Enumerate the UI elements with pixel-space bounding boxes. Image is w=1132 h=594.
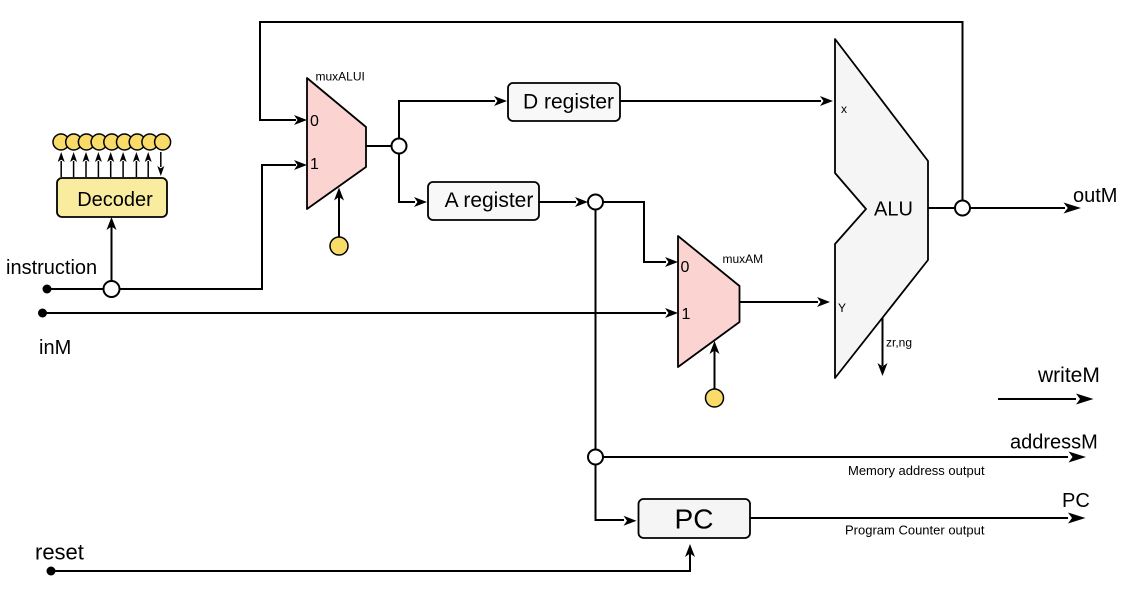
node ALU output junction — [955, 201, 970, 216]
wire instruction line to muxALUI input 1 — [47, 160, 307, 289]
register PC — [639, 499, 751, 538]
wire junction down to addressM junction — [595, 210, 597, 450]
svg-text:instruction: instruction — [6, 257, 97, 279]
svg-text:1: 1 — [682, 306, 691, 323]
svg-text:Y: Y — [838, 301, 846, 315]
svg-text:1: 1 — [310, 156, 319, 173]
mux muxAM — [678, 236, 763, 367]
wire D register to ALU X input — [620, 96, 833, 106]
register D — [508, 83, 620, 121]
svg-text:D register: D register — [523, 91, 614, 114]
svg-text:outM: outM — [1073, 185, 1117, 207]
control dot for muxALUI — [330, 188, 348, 256]
wire muxAM output to ALU Y input — [740, 297, 831, 307]
control dot for muxAM — [706, 341, 724, 407]
node addressM junction — [588, 450, 603, 465]
register A — [428, 182, 539, 220]
svg-text:writeM: writeM — [1037, 364, 1100, 387]
svg-text:muxALUI: muxALUI — [316, 70, 365, 84]
svg-text:inM: inM — [39, 337, 71, 359]
svg-text:Decoder: Decoder — [77, 189, 153, 211]
svg-text:muxAM: muxAM — [723, 252, 764, 266]
svg-text:reset: reset — [35, 540, 84, 565]
wire ALU output stub — [928, 207, 955, 209]
svg-text:x: x — [841, 102, 847, 116]
mux muxALUI — [307, 70, 366, 210]
node A register output junction — [588, 195, 603, 210]
node instruction junction — [104, 281, 120, 297]
svg-text:zr,ng: zr,ng — [886, 336, 912, 350]
svg-text:Memory address output: Memory address output — [848, 463, 985, 478]
wire junction to A register — [399, 154, 427, 208]
wire feedback loop from ALU output up and left to muxALUI input 0 — [260, 22, 963, 201]
decoder U1 — [57, 178, 167, 217]
wire zr,ng status output — [878, 318, 913, 376]
wire inM line to muxAM input 1 — [43, 308, 679, 318]
wire junction to D register — [399, 96, 507, 139]
svg-text:0: 0 — [310, 113, 319, 130]
wire ALU output to outM — [970, 203, 1081, 214]
wire junction down and right to PC — [596, 465, 637, 526]
node reset input dot — [47, 567, 56, 576]
svg-text:PC: PC — [675, 504, 714, 535]
svg-text:ALU: ALU — [874, 199, 913, 221]
svg-text:Program Counter output: Program Counter output — [845, 523, 985, 538]
svg-text:PC: PC — [1062, 490, 1090, 512]
wire writeM output arrow — [998, 394, 1094, 405]
wire junction to muxAM input 0 — [603, 202, 678, 267]
node muxALUI output junction — [392, 139, 407, 154]
decoder output bit dots — [53, 134, 171, 150]
svg-text:A register: A register — [445, 189, 534, 212]
wire muxALUI output stub — [366, 145, 399, 147]
decoder output arrows — [58, 152, 165, 177]
node inM input dot — [38, 309, 47, 318]
ALU U2 — [835, 39, 928, 378]
svg-text:addressM: addressM — [1010, 432, 1098, 454]
node instruction input dot — [43, 285, 52, 294]
wire instruction junction up to Decoder — [107, 217, 117, 282]
wire A register output to junction — [539, 197, 588, 207]
wire PC output — [750, 513, 1086, 524]
svg-text:0: 0 — [681, 259, 690, 276]
wire reset line to PC bottom — [51, 544, 695, 571]
wire addressM output — [603, 452, 1086, 463]
